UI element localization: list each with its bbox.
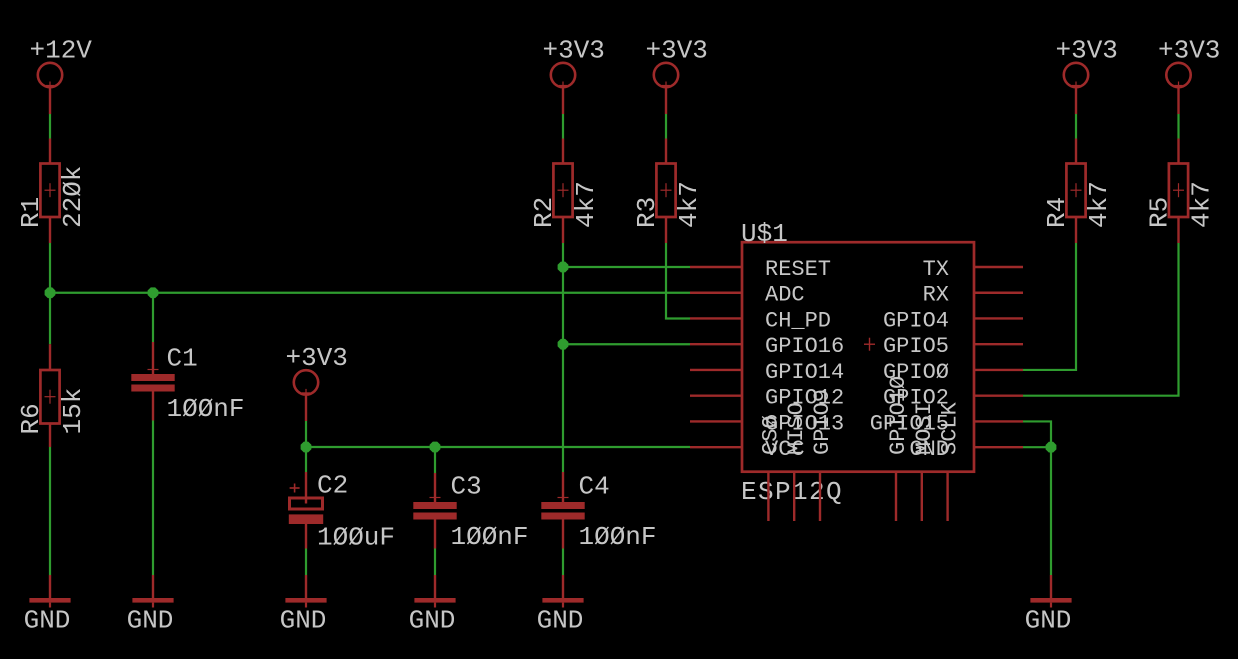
svg-text:1ØØnF: 1ØØnF	[579, 522, 657, 552]
pin VCC stub	[690, 446, 742, 448]
capacitor C1 100nF	[131, 344, 244, 425]
wire +3V3 to VCC rail	[305, 395, 307, 421]
wire C2 top	[305, 447, 307, 472]
wire R3 to CH_PD	[665, 217, 667, 243]
svg-text:R3: R3	[632, 197, 662, 228]
svg-text:GND: GND	[24, 606, 71, 636]
power +3V3 P2	[543, 36, 605, 90]
wire R6 to GND	[49, 424, 51, 448]
capacitor C4 100nF	[562, 472, 564, 502]
node junction R1/R6/ADC	[45, 287, 56, 298]
svg-text:+3V3: +3V3	[1158, 36, 1220, 66]
wire R1 bottom	[49, 217, 51, 243]
wire R5 to GPIO2	[1177, 217, 1179, 243]
wire +3V3 to R3	[665, 87, 667, 114]
svg-text:GPIO4: GPIO4	[883, 308, 949, 333]
svg-text:C4: C4	[579, 472, 610, 502]
pin GPIO1Ø stub (bottom)	[895, 472, 897, 521]
pin GPIO15 stub	[974, 420, 1023, 422]
svg-text:+3V3: +3V3	[1056, 36, 1118, 66]
resistor R4 4k7	[1042, 164, 1114, 229]
node junction C1 top	[148, 287, 159, 298]
wire GND net	[1023, 447, 1051, 575]
node junction R2/RESET	[558, 262, 569, 273]
wire junction to R6	[49, 293, 51, 344]
pin GPIO14 stub	[690, 369, 742, 371]
svg-text:GPIO1Ø: GPIO1Ø	[886, 376, 911, 455]
pin ADC stub	[690, 292, 742, 294]
pin MOSI stub (bottom)	[921, 472, 923, 521]
resistor R6 15k	[16, 370, 88, 435]
capacitor C3 100nF	[413, 472, 528, 553]
svg-text:R1: R1	[16, 197, 46, 228]
pin GPIO9 stub (bottom)	[819, 472, 821, 521]
pin GPIO2 stub	[974, 395, 1023, 397]
pin GPIO13 stub	[690, 420, 742, 422]
pin GPIO12 stub	[690, 395, 742, 397]
svg-text:GND: GND	[280, 606, 327, 636]
svg-text:R5: R5	[1145, 197, 1175, 228]
pin GPIO5 stub	[974, 343, 1023, 345]
wire +3V3 to R2	[562, 87, 564, 114]
pin RX stub	[974, 292, 1023, 294]
capacitor C2 100uF polarized	[289, 471, 395, 553]
wire C3 to GND	[434, 520, 436, 549]
wire net ADC horizontal	[50, 292, 690, 294]
power +12V P1	[30, 36, 93, 90]
pin GPIO4 stub	[974, 317, 1023, 319]
wire C1 to GND	[152, 392, 154, 421]
svg-text:CH_PD: CH_PD	[765, 308, 831, 333]
wire +3V3 to R4	[1075, 87, 1077, 114]
svg-text:15k: 15k	[58, 388, 88, 435]
svg-text:+3V3: +3V3	[543, 36, 605, 66]
op-amp U$1 ESP12Q box	[742, 242, 974, 472]
svg-text:GND: GND	[537, 606, 584, 636]
svg-text:R6: R6	[16, 403, 46, 434]
power +3V3 P5	[1056, 36, 1118, 90]
svg-text:+3V3: +3V3	[286, 343, 348, 373]
svg-text:ADC: ADC	[765, 283, 805, 308]
svg-text:RESET: RESET	[765, 257, 831, 282]
svg-text:1ØØuF: 1ØØuF	[317, 523, 395, 553]
pin TX stub	[974, 266, 1023, 268]
ground GND6	[1025, 575, 1072, 636]
origin cross U$1	[864, 338, 875, 351]
svg-text:C3: C3	[451, 472, 482, 502]
svg-text:U$1: U$1	[741, 219, 788, 249]
resistor R1 220k	[16, 164, 88, 229]
wire C3 top	[434, 447, 436, 473]
resistor R5 4k7	[1145, 164, 1217, 229]
node junction VCC/C3	[430, 442, 441, 453]
wire C4 to GND	[562, 520, 564, 549]
svg-text:MISO: MISO	[784, 402, 809, 455]
svg-text:+12V: +12V	[30, 36, 93, 66]
svg-text:1ØØnF: 1ØØnF	[451, 522, 529, 552]
ground GND5	[537, 575, 584, 636]
wire GPIO15 to GND net	[1023, 421, 1051, 447]
svg-text:GND: GND	[127, 606, 174, 636]
svg-text:R4: R4	[1042, 197, 1072, 228]
ground GND3	[280, 575, 327, 636]
power +3V3 P3	[646, 36, 708, 90]
svg-text:4k7: 4k7	[1187, 181, 1217, 228]
svg-text:C1: C1	[167, 344, 198, 374]
resistor R2 4k7	[529, 164, 601, 229]
svg-text:TX: TX	[923, 257, 949, 282]
ground GND2	[127, 575, 174, 636]
svg-text:4k7: 4k7	[571, 181, 601, 228]
svg-text:C2: C2	[317, 471, 348, 501]
svg-text:ESP12Q: ESP12Q	[741, 477, 843, 507]
pin MISO stub (bottom)	[793, 472, 795, 521]
pin CSØ stub (bottom)	[767, 472, 769, 521]
pin GND stub	[974, 446, 1023, 448]
wire R2 bottom vertical	[562, 217, 564, 243]
svg-text:CSØ: CSØ	[758, 415, 783, 455]
pin RESET stub	[690, 266, 742, 268]
wire net GPIO16	[563, 343, 690, 345]
node junction GPIO16/C4	[558, 339, 569, 350]
svg-text:1ØØnF: 1ØØnF	[167, 394, 245, 424]
svg-text:4k7: 4k7	[1084, 181, 1114, 228]
svg-text:RX: RX	[923, 283, 949, 308]
svg-text:GPIO14: GPIO14	[765, 360, 844, 385]
pin GPIOØ stub	[974, 369, 1023, 371]
svg-text:MOSI: MOSI	[912, 402, 937, 455]
wire net VCC horizontal	[306, 446, 690, 448]
ground GND1	[24, 575, 71, 636]
svg-text:GPIO9: GPIO9	[810, 389, 835, 455]
node junction VCC/C2	[301, 442, 312, 453]
power +3V3 P4	[286, 343, 348, 397]
ground GND4	[409, 575, 456, 636]
wire C2 to GND	[305, 524, 307, 549]
wire +12V to R1	[49, 87, 51, 114]
wire C1 top	[152, 293, 154, 342]
svg-text:GPIO5: GPIO5	[883, 334, 949, 359]
pin SCLK stub (bottom)	[946, 472, 948, 521]
wire +3V3 to R5	[1177, 87, 1179, 114]
svg-text:GND: GND	[1025, 606, 1072, 636]
wire R4 to GPIO0	[1075, 217, 1077, 243]
resistor R3 4k7	[632, 164, 704, 229]
node junction GND net	[1046, 442, 1057, 453]
pin CH_PD stub	[690, 317, 742, 319]
svg-text:R2: R2	[529, 197, 559, 228]
svg-text:22Øk: 22Øk	[58, 166, 88, 228]
svg-text:+3V3: +3V3	[646, 36, 708, 66]
svg-text:GND: GND	[409, 606, 456, 636]
svg-text:SCLK: SCLK	[938, 401, 963, 455]
svg-text:GPIO16: GPIO16	[765, 334, 844, 359]
pin GPIO16 stub	[690, 343, 742, 345]
wire net RESET	[563, 266, 690, 268]
power +3V3 P6	[1158, 36, 1220, 90]
svg-text:4k7: 4k7	[674, 181, 704, 228]
